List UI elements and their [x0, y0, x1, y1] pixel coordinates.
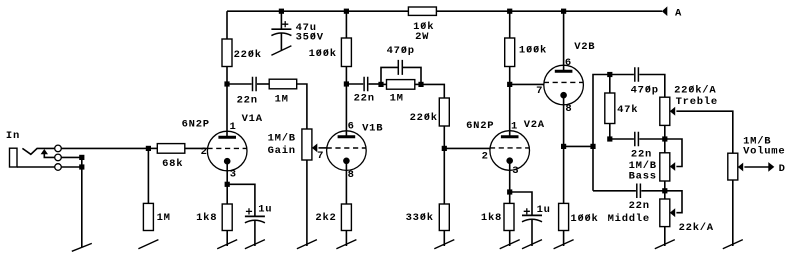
V2A pin 1 [511, 120, 518, 132]
svg-text:8: 8 [348, 169, 355, 181]
gain pot name label Gain [268, 145, 296, 157]
potentiometer Bass 1M/B [660, 153, 670, 181]
R 1M (2) value label 1M [390, 92, 404, 104]
wire tone input to C 470p [610, 74, 634, 76]
wire rail to V2B anode [563, 11, 565, 71]
wire rail to R 220k [226, 11, 228, 39]
resistor R 1M (V1A out) [269, 79, 297, 89]
junction grid node [146, 146, 151, 151]
V2B pin 7 [536, 85, 543, 97]
resistor R 1M input grid leak [143, 203, 153, 230]
wire sleeve from jack [17, 166, 55, 168]
wire treble bottom to bass pot [664, 125, 666, 152]
capacitor C 470p (bright) [398, 60, 402, 75]
svg-text:1M: 1M [390, 92, 404, 104]
jack tip terminal [55, 145, 62, 152]
resistor R 330k [439, 204, 449, 231]
input label In [6, 130, 20, 142]
svg-text:22n: 22n [354, 92, 375, 104]
resistor R 100k (V2B cathode) [559, 203, 569, 230]
junction 1M/470p right [418, 82, 423, 87]
wire junction to V2A grid [444, 147, 490, 149]
svg-text:Gain: Gain [268, 145, 296, 157]
bass pot value label 1M/B [629, 160, 657, 172]
jack J1 body [10, 148, 18, 167]
svg-text:V2A: V2A [524, 119, 545, 131]
C 47u polarity + [282, 21, 288, 27]
capacitor C 47u/350V [271, 29, 291, 35]
wire middle wiper loop [665, 191, 682, 213]
wire R 220k to junction [443, 126, 445, 204]
wire cathode to C 1u [227, 184, 255, 216]
junction slope/bass cap [607, 136, 612, 141]
volume wiper arrow [738, 163, 743, 172]
junction V1A cathode [225, 182, 230, 187]
V2B pin 8 [565, 103, 572, 115]
wire treble wiper to volume [676, 111, 732, 153]
wire sleeve to ground bus [61, 166, 82, 168]
tube type 6N2P (V2) label 6N2P [466, 120, 494, 132]
treble pot value label 220k/A [674, 84, 716, 96]
svg-text:7: 7 [317, 150, 324, 162]
R 1M value label 1M [157, 212, 171, 224]
gain pot value label 1M/B [268, 133, 296, 145]
svg-text:220k: 220k [234, 49, 262, 61]
wire V2A anode to V2B grid [510, 83, 544, 85]
potentiometer Gain 1M/B [302, 129, 312, 160]
wire C 22n to R 1M [257, 83, 269, 85]
svg-text:1u: 1u [537, 204, 551, 216]
wire rail to V2A anode [509, 11, 511, 38]
svg-text:Volume: Volume [743, 145, 785, 157]
wire bass bottom to mid node [664, 181, 666, 199]
svg-text:6N2P: 6N2P [466, 120, 494, 132]
svg-text:A: A [675, 7, 682, 19]
jack sleeve terminal [55, 164, 62, 171]
ground under C 1u (2) [522, 219, 542, 249]
jack tip switch contact [22, 148, 54, 154]
R 330k value label 330k [406, 212, 434, 224]
junction V2B cathode [561, 144, 566, 149]
capacitor C 22n (bass) [635, 132, 639, 147]
svg-text:350V: 350V [296, 31, 324, 43]
ground under R 330k [434, 231, 454, 249]
wire riser vertical [593, 75, 610, 191]
V1B pin 7 [317, 150, 324, 162]
potentiometer Volume 1M/B [728, 153, 738, 180]
V1B pin 6 [348, 121, 355, 133]
treble pot name label Treble [676, 96, 718, 108]
V1A pin 2 [201, 146, 208, 158]
wire V1A anode to C 22n [227, 83, 252, 85]
tube V1A name label V1A [242, 113, 263, 125]
potentiometer Middle 22k/A [660, 199, 670, 227]
junction mid node [662, 188, 667, 193]
wire V2B cathode down [563, 95, 565, 203]
wire node to R 1M left [381, 83, 387, 85]
triode V1B [327, 131, 367, 171]
ground under middle pot [655, 227, 675, 249]
C 470p (2) value label 470p [631, 84, 659, 96]
ground under R 1k8 (2) [500, 231, 520, 249]
capacitor C 22n (V1A out) [253, 77, 257, 92]
C 1u value label 1u [258, 204, 272, 216]
jack switch arrow stem [44, 153, 54, 157]
resistor R 220k (V2A grid) [439, 98, 449, 126]
C 1u (2) value label 1u [537, 204, 551, 216]
wire node to V2A grid column [421, 84, 444, 98]
junction V2A cathode [507, 189, 512, 194]
wire gain wiper to V1B grid [319, 147, 327, 149]
wire B+ rail right segment [436, 10, 662, 12]
R 220k value label 220k [234, 49, 262, 61]
svg-text:470p: 470p [631, 84, 659, 96]
wire R 47k to bass node [609, 124, 611, 140]
capacitor C 22n (middle) [637, 184, 641, 199]
tube V2B name label V2B [574, 41, 595, 53]
R 47k value label 47k [617, 104, 638, 116]
resistor R 100k (V2A anode) [505, 38, 515, 67]
ground under R 100k [554, 231, 574, 249]
svg-text:68k: 68k [162, 158, 183, 170]
R 220k (2) value label 220k [410, 112, 438, 124]
node D [779, 163, 786, 175]
junction rail/47u [279, 9, 284, 14]
resistor R 100k (V1B anode) [341, 38, 351, 67]
resistor R 1M (input) with ground [138, 148, 158, 248]
R 68k value label 68k [162, 158, 183, 170]
svg-text:47k: 47k [617, 104, 638, 116]
bass wiper arrow [670, 162, 675, 171]
wire 470p branch right [403, 67, 421, 84]
svg-text:Bass: Bass [629, 170, 657, 182]
svg-text:Treble: Treble [676, 96, 718, 108]
wire R 68k to V1A grid [185, 147, 208, 149]
svg-text:7: 7 [536, 85, 543, 97]
wire R 100k to V1B anode [345, 67, 347, 137]
jack switch arrow [41, 149, 48, 154]
wire rail to V1B load [345, 11, 347, 38]
svg-text:470p: 470p [387, 45, 415, 57]
wire cathode to C 1u (2) [510, 192, 532, 215]
junction V2A anode/V2B grid [507, 82, 512, 87]
wire grid node to R 68k [145, 147, 158, 149]
wire bass wiper loop [665, 139, 682, 167]
junction rail/V2B anode [561, 9, 566, 14]
svg-text:3: 3 [230, 169, 237, 181]
C 1u polarity + [246, 208, 252, 214]
svg-text:100k: 100k [519, 45, 547, 57]
wire riser to C 22n mid [593, 190, 636, 192]
svg-text:Middle: Middle [608, 213, 650, 225]
svg-text:1u: 1u [258, 204, 272, 216]
svg-text:V1A: V1A [242, 113, 263, 125]
svg-text:6: 6 [565, 57, 572, 69]
tube type 6N2P (V1) label 6N2P [182, 118, 210, 130]
C 1u (2) polarity + [524, 208, 530, 214]
wire tip to grid node [61, 147, 144, 149]
ground under gain pot [297, 160, 317, 249]
svg-text:2W: 2W [415, 31, 429, 43]
svg-text:1k8: 1k8 [481, 212, 502, 224]
wire C 22n to node [369, 83, 381, 85]
potentiometer Treble 220k/A [660, 97, 670, 125]
wire C 22n to bass top [639, 138, 665, 140]
wire volume wiper to D [744, 166, 768, 168]
R 100k value label 100k [309, 48, 337, 60]
svg-text:22n: 22n [237, 94, 258, 106]
svg-text:22n: 22n [631, 149, 652, 161]
wire R 1M to node right [415, 83, 421, 85]
svg-text:2: 2 [201, 146, 208, 158]
svg-text:D: D [779, 163, 786, 175]
svg-text:1k8: 1k8 [196, 212, 217, 224]
wire bass node to C 22n [610, 138, 634, 140]
svg-text:220k/A: 220k/A [674, 84, 716, 96]
svg-text:22k/A: 22k/A [679, 222, 714, 234]
C 22n value label 22n [237, 94, 258, 106]
resistor R 47k [605, 93, 615, 124]
V1A pin 1 [230, 121, 237, 133]
V1A pin 3 [230, 169, 237, 181]
svg-text:2k2: 2k2 [315, 212, 336, 224]
bass pot name label Bass [629, 170, 657, 182]
ground under C 47u [271, 33, 291, 55]
junction sleeve/ground bus [79, 164, 84, 169]
svg-text:1M/B: 1M/B [268, 133, 296, 145]
tube V2A name label V2A [524, 119, 545, 131]
capacitor C 470p (treble) [635, 67, 639, 82]
R 2k2 value label 2k2 [315, 212, 336, 224]
svg-text:2: 2 [482, 150, 489, 162]
V2A pin 2 [482, 150, 489, 162]
svg-text:100k: 100k [570, 213, 598, 225]
resistor R 1k8 (V1A cathode) [222, 204, 232, 231]
svg-text:V2B: V2B [574, 41, 595, 53]
C 22n (2) value label 22n [354, 92, 375, 104]
junction treble bottom/bass top [662, 136, 667, 141]
R 100k (2) value label 100k [519, 45, 547, 57]
junction tone input [607, 72, 612, 77]
wire V2A cathode down [509, 161, 511, 204]
capacitor C 22n (V1B out) [364, 77, 368, 92]
svg-text:22n: 22n [629, 200, 650, 212]
resistor R 220k (V1A anode) [222, 39, 232, 67]
svg-text:1M: 1M [157, 212, 171, 224]
svg-text:6N2P: 6N2P [182, 118, 210, 130]
wire rail to C 47u [280, 11, 282, 29]
middle pot name label Middle [608, 213, 650, 225]
wire R 220k to V1A anode [226, 67, 228, 138]
junction V2A grid [442, 146, 447, 151]
volume pot value label 1M/B [743, 136, 771, 148]
ground under volume pot [723, 180, 743, 249]
svg-text:100k: 100k [309, 48, 337, 60]
treble wiper arrow [670, 107, 675, 116]
wire 470p branch left [381, 67, 398, 84]
R 10k wattage label 2W [415, 31, 429, 43]
svg-text:220k: 220k [410, 112, 438, 124]
wire C 22n to mid node [641, 190, 665, 192]
output D arrow [768, 162, 774, 172]
ground input bus [72, 157, 92, 251]
V2A pin 3 [512, 165, 519, 177]
svg-text:8: 8 [565, 103, 572, 115]
ground under C 1u [245, 220, 265, 249]
junction V1A anode/coupling [224, 81, 229, 86]
resistor R 10k 2W [408, 7, 436, 15]
jack ring terminal [55, 154, 62, 161]
capacitor C 1u (V2A bypass) [522, 215, 542, 221]
junction ring/ground bus [79, 155, 84, 160]
resistor R 1M (V1B out) [387, 80, 415, 90]
R 1M series value label 1M [275, 93, 289, 105]
svg-text:V1B: V1B [362, 123, 383, 135]
resistor R 2k2 (V1B cathode) [341, 204, 351, 231]
R 1k8 (2) value label 1k8 [481, 212, 502, 224]
volume pot name label Volume [743, 145, 785, 157]
wire tone input to R 47k [609, 75, 611, 94]
junction rail/V1B load [344, 9, 349, 14]
capacitor C 1u (V1A bypass) [245, 216, 265, 222]
C 22n (mid) value label 22n [629, 200, 650, 212]
output A arrow [662, 6, 668, 16]
R 1k8 value label 1k8 [196, 212, 217, 224]
resistor R 68k [157, 144, 185, 154]
V1B pin 8 [348, 169, 355, 181]
triode V2B [544, 65, 584, 105]
wire C 470p to treble pot [639, 75, 665, 98]
wire V1A cathode down [226, 161, 228, 204]
wire V1B anode to C 22n [346, 83, 363, 85]
junction 1M/470p left [378, 82, 383, 87]
C 47u voltage label 350V [296, 31, 324, 43]
node A [675, 7, 682, 19]
wire R 1M to gain pot [297, 84, 307, 129]
C 47u value label 47u [296, 22, 317, 34]
svg-text:3: 3 [512, 165, 519, 177]
wire ring to ground bus [61, 156, 82, 158]
ground under R 1k8 [217, 231, 237, 249]
wire R 100k to V2A anode [509, 67, 511, 137]
V2B pin 6 [565, 57, 572, 69]
tube V1B name label V1B [362, 123, 383, 135]
wire B+ rail left segment [227, 10, 408, 12]
C 22n (bass) value label 22n [631, 149, 652, 161]
junction rail/V2A load [507, 9, 512, 14]
R 100k (3) value label 100k [570, 213, 598, 225]
middle wiper arrow [670, 208, 675, 217]
wire cathode to riser [564, 145, 593, 147]
triode V1A [207, 131, 247, 171]
middle pot value label 22k/A [679, 222, 714, 234]
wire V1B cathode to R 2k2 [345, 161, 347, 204]
svg-text:1M: 1M [275, 93, 289, 105]
junction V1B anode/coupling [344, 81, 349, 86]
svg-text:330k: 330k [406, 212, 434, 224]
R 10k [413, 21, 434, 33]
junction riser [590, 144, 595, 149]
gain pot wiper arrow [312, 144, 317, 153]
ground under R 2k2 [336, 231, 356, 249]
svg-text:In: In [6, 130, 20, 142]
resistor R 1k8 (V2A cathode) [504, 203, 514, 230]
C 470p value label 470p [387, 45, 415, 57]
triode V2A [490, 131, 530, 171]
